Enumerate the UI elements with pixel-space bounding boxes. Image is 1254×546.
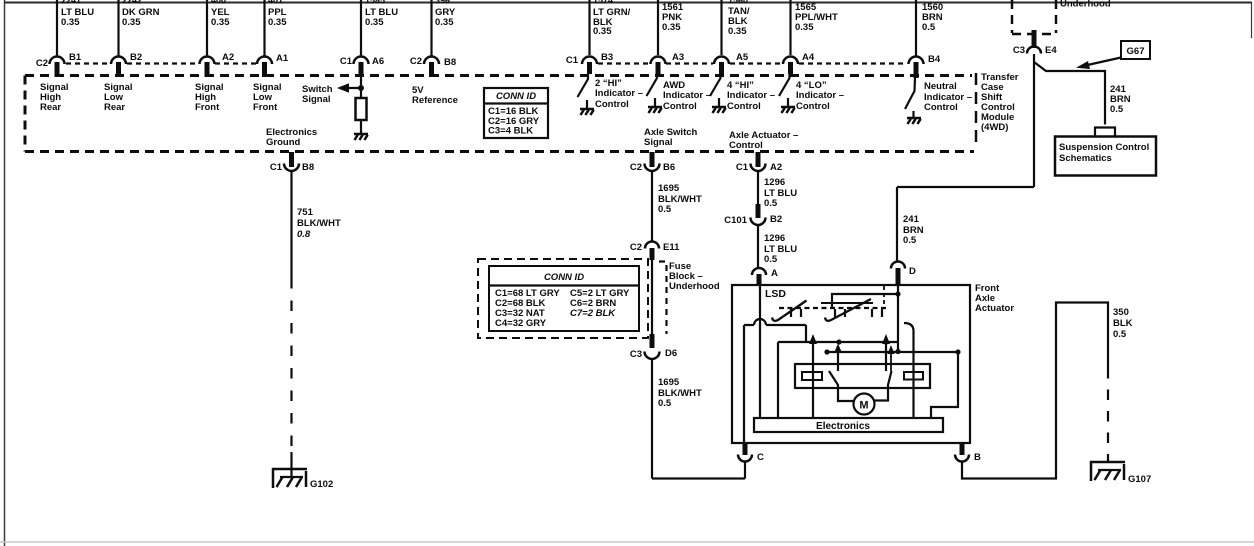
svg-text:0.35: 0.35 [662,22,681,33]
wire E4 branch to suspension [1034,62,1105,125]
connector C1/B3 [582,57,597,64]
wire 1296 upper [757,171,759,206]
wire D internal vertical [897,285,899,352]
funnel left slant to motor [829,371,854,401]
connector C2/B1 [50,57,65,64]
junction dot A6 [358,85,364,91]
svg-text:B2: B2 [130,52,142,63]
svg-text:BLK/WHT: BLK/WHT [297,218,341,229]
svg-text:Suspension Control: Suspension Control [1059,142,1149,153]
transistor arrow a1 [812,343,814,418]
connector C101/B2 pin [756,204,761,218]
wire 751 solid [290,171,292,278]
svg-text:Control: Control [729,140,763,151]
svg-text:C2: C2 [630,242,642,253]
svg-text:G107: G107 [1128,474,1151,485]
wire L2 [827,351,958,353]
connector C2/B6 cup [645,164,660,172]
junction dot L1 left [836,339,841,344]
svg-text:350: 350 [1113,307,1129,318]
svg-text:(4WD): (4WD) [981,122,1008,133]
svg-text:E11: E11 [663,242,680,253]
svg-text:B6: B6 [663,162,675,173]
connector A1 [257,57,272,64]
connector C1/A6 [354,57,369,64]
svg-text:0.8: 0.8 [297,229,311,240]
svg-text:0.35: 0.35 [61,17,80,28]
connector C1/A2 cup [751,164,766,172]
svg-text:Front: Front [195,102,220,113]
wire col2 [117,0,119,56]
module dashed box top [25,74,972,77]
connector C2/B6 pin [650,152,655,167]
ground A5 [712,107,726,113]
svg-text:C1: C1 [566,55,579,66]
wire A6 to resistor [360,76,362,98]
svg-text:1585: 1585 [365,0,385,6]
junction dot D top [895,291,900,296]
wire 1296 lower [757,225,759,268]
wire col10 [789,0,791,55]
connector C3/E4 arc [1027,47,1041,54]
svg-text:B2: B2 [770,214,782,225]
switch A4 (4 LO indicator) [779,73,790,96]
svg-text:401: 401 [268,0,283,6]
connector C cup [738,455,752,462]
transistor arrow a4 [890,353,892,371]
svg-text:Actuator: Actuator [975,303,1014,314]
svg-text:C: C [757,452,764,463]
svg-text:Control: Control [727,101,761,112]
svg-text:1560: 1560 [728,0,748,6]
svg-text:1296: 1296 [764,177,785,188]
svg-text:Control: Control [663,101,697,112]
connector A2 [200,57,215,64]
connector C2/B8 [424,57,439,64]
svg-text:B8: B8 [444,57,456,68]
svg-text:B: B [974,452,981,463]
wire col8 [657,0,659,55]
wire col11 [915,0,917,56]
svg-text:A3: A3 [672,52,684,63]
svg-text:A6: A6 [372,56,384,67]
svg-text:0.5: 0.5 [764,254,778,265]
svg-text:Signal: Signal [302,94,331,105]
switch B4 (Neutral indicator) [905,78,915,109]
svg-text:2242: 2242 [122,0,142,6]
svg-text:A2: A2 [770,162,782,173]
wire 1695 lower [651,359,653,479]
wire A internal vertical [759,285,761,418]
suspension control schematics box [1055,137,1156,176]
junction dot L1 right [883,339,888,344]
ground A4 [781,107,795,113]
funnel right slant to motor [875,371,892,401]
CONN ID box 2 inner [489,266,639,331]
svg-text:Electronics: Electronics [816,421,870,432]
svg-text:A1: A1 [276,53,289,64]
linkage dashed line [779,307,886,309]
wire 1695 upper [651,171,653,241]
switch blade left [772,301,807,321]
svg-text:Underhood: Underhood [669,281,720,292]
wire E4 down to 241 run [1033,54,1035,187]
connector C3/E4 pin [1032,30,1037,48]
page bottom gray line [0,541,1254,543]
svg-text:E4: E4 [1045,45,1057,56]
svg-text:Underhood: Underhood [1060,0,1111,10]
dotted connector line left group [66,62,256,64]
wire col4 [263,0,265,56]
electronics bar [754,418,943,432]
svg-text:G102: G102 [310,479,333,490]
junction dot L2 right [955,349,960,354]
fuse block underhood dashed box top right [1012,0,1056,34]
svg-text:2241: 2241 [61,0,81,6]
svg-text:0.5: 0.5 [922,22,936,33]
module bracket right [975,73,978,142]
svg-text:Front: Front [253,102,278,113]
svg-text:D6: D6 [665,348,677,359]
wire col5 [360,0,362,56]
svg-text:0.35: 0.35 [122,17,141,28]
svg-text:0.35: 0.35 [435,17,454,28]
suspension connector staple [1095,128,1115,137]
wire resistor to ground [360,120,362,134]
resistor right [904,372,923,380]
wire hook right vertical [904,323,914,418]
junction dot D on L2 [895,349,900,354]
transistor arrow a3 [885,343,887,371]
svg-text:C7=2 BLK: C7=2 BLK [570,308,616,319]
svg-text:0.35: 0.35 [593,26,612,37]
ground G107 [1090,461,1125,481]
svg-text:400: 400 [211,0,226,6]
svg-text:Indicator –: Indicator – [796,90,844,101]
wire L2 step down right [931,352,958,418]
svg-text:Reference: Reference [412,95,458,106]
wire col6 [430,0,432,56]
svg-text:Ground: Ground [266,137,300,148]
svg-text:C1: C1 [340,56,353,67]
wire E11 to D6 [651,260,653,335]
wire left inner vertical [777,342,779,418]
svg-text:0.35: 0.35 [211,17,230,28]
CONN ID box 1 [484,88,548,138]
svg-text:A4: A4 [802,52,815,63]
wire col1 [56,0,58,56]
svg-text:C2: C2 [630,162,642,173]
svg-text:Indicator –: Indicator – [727,90,775,101]
svg-text:241: 241 [903,214,920,225]
page border right stub [1251,2,1253,38]
connector C3/D6 cup [645,352,660,360]
resistor R1 [356,98,367,120]
connector C101/B2 cup [751,218,766,226]
svg-text:B1: B1 [69,52,82,63]
resistor left [802,372,822,380]
wire H1 with hop [744,319,806,342]
junction dot L2 left [824,349,829,354]
svg-text:0.5: 0.5 [903,235,917,246]
svg-text:Control: Control [924,102,958,113]
wire 751 dashed [290,278,292,452]
svg-text:C2: C2 [36,58,48,69]
connector C1/B8 cup [284,164,299,172]
connector A5 [714,57,729,64]
ground A3 [648,107,662,113]
svg-text:Control: Control [595,99,629,110]
wire internal left vertical to C [743,325,745,443]
resistor block box [795,364,930,388]
svg-text:B8: B8 [302,162,314,173]
svg-text:0.5: 0.5 [658,204,672,215]
svg-text:A2: A2 [222,52,234,63]
switch A5 (4 HI indicator) [710,73,721,96]
svg-text:C3=4 BLK: C3=4 BLK [488,126,533,137]
transistor arrow a2 [837,352,839,371]
ground G102 [272,468,307,488]
svg-text:CONN ID: CONN ID [496,91,536,102]
wire 241 vertical to D [896,187,898,262]
svg-text:M: M [859,400,868,412]
connector A arc [752,268,766,275]
svg-text:0.5: 0.5 [764,198,778,209]
svg-text:1695: 1695 [658,377,680,388]
svg-text:Indicator –: Indicator – [663,90,711,101]
svg-text:0.35: 0.35 [795,22,814,33]
wire 350 dashed [1107,368,1109,462]
module dashed box bottom [25,150,974,153]
top loop wire [832,294,898,307]
wire bottom run to C [652,477,745,479]
svg-text:BLK: BLK [1113,318,1133,329]
svg-text:C3: C3 [1013,45,1025,56]
connector B4 [909,57,924,64]
svg-text:LSD: LSD [765,288,786,300]
linkage dash-dot vertical [883,286,885,308]
svg-text:1695: 1695 [658,183,680,194]
svg-text:A: A [771,268,778,279]
connector C1/B8 pin [289,152,294,167]
svg-text:A5: A5 [736,52,749,63]
contact ticks [791,309,882,317]
svg-text:0.35: 0.35 [365,17,384,28]
connector C2/E11 arc [645,242,659,249]
wire 751 to ground [290,452,292,477]
svg-text:C2: C2 [410,56,422,67]
linkage solid mid line [821,302,873,304]
svg-text:Neutral: Neutral [924,81,957,92]
svg-text:Signal: Signal [644,137,673,148]
svg-text:C3: C3 [630,349,642,360]
svg-text:396: 396 [435,0,450,6]
svg-text:1574: 1574 [593,0,613,6]
svg-text:0.5: 0.5 [658,398,672,409]
connector C3/D6 pin [650,334,655,348]
wire 241 horizontal [897,186,1034,188]
wire B down and right [962,303,1108,479]
wire C down [744,462,746,479]
page border top [4,2,1252,4]
wire col3 [206,0,208,56]
svg-text:Rear: Rear [104,102,125,113]
switch A3 (AWD indicator) [647,73,658,96]
dotted connector line right group [598,62,907,64]
svg-text:C101: C101 [724,215,747,226]
CONN ID box 2 outer dashed [478,259,648,338]
page border left [4,0,6,546]
svg-text:C4=32 GRY: C4=32 GRY [495,318,547,329]
connector B pin [960,443,965,455]
connector B2 [111,57,126,64]
ground B4 [907,118,921,124]
svg-text:0.35: 0.35 [268,17,287,28]
wire L1 [778,341,899,343]
wire col9 [720,0,722,55]
svg-text:Rear: Rear [40,102,61,113]
svg-text:0.5: 0.5 [1110,104,1124,115]
connector B cup [955,455,969,462]
svg-text:0.5: 0.5 [1113,329,1127,340]
switch blade right [825,299,871,321]
connector C1/A2 pin [756,152,761,167]
svg-text:CONN ID: CONN ID [544,272,584,283]
connector A4 [783,57,798,64]
ground under resistor [354,134,368,140]
switch B3 (2 HI indicator) [578,73,589,97]
ground B3 [580,109,594,115]
svg-text:1296: 1296 [764,233,785,244]
svg-text:Indicator –: Indicator – [595,88,643,99]
connector A3 [651,57,666,64]
svg-text:G67: G67 [1127,46,1145,57]
switch signal arrow [344,87,361,89]
motor M1 [854,394,875,415]
svg-text:B3: B3 [601,52,613,63]
svg-text:Schematics: Schematics [1059,153,1112,164]
svg-text:C1: C1 [270,162,283,173]
front axle actuator box [732,285,970,443]
G67 arrow [1083,58,1121,67]
svg-text:751: 751 [297,207,314,218]
connector D arc [891,262,905,269]
svg-text:C1: C1 [736,162,749,173]
svg-text:Control: Control [796,101,830,112]
fuse block underhood bracket [659,262,667,335]
wire col7 [588,0,590,55]
module dashed box left [24,76,27,152]
svg-text:B4: B4 [928,54,941,65]
G67 box [1121,41,1150,59]
svg-text:0.35: 0.35 [728,26,747,37]
connector C pin [743,443,748,455]
svg-text:D: D [909,266,916,277]
